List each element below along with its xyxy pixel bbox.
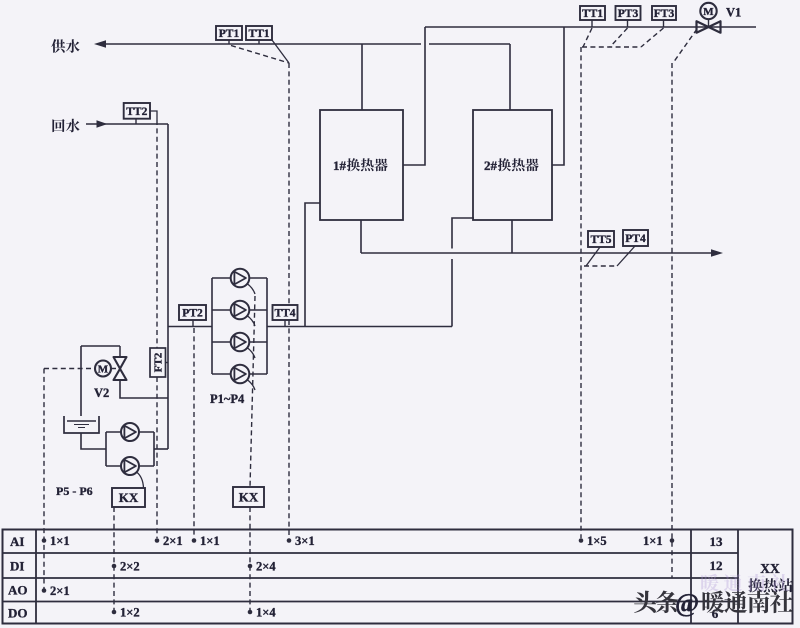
node DI KX-left 2x2 bbox=[112, 560, 140, 574]
signal line pumps to KX (dashed x=255-250) bbox=[250, 296, 255, 487]
wire exchanger2 top outlet bbox=[509, 44, 511, 110]
label V2 bbox=[94, 386, 109, 400]
valve V2 with motor actuator M bbox=[81, 346, 168, 398]
pump P2 bbox=[231, 301, 250, 320]
svg-text:V1: V1 bbox=[726, 6, 741, 20]
relay KX (P1-P4) bbox=[233, 487, 264, 507]
row label DO bbox=[8, 606, 28, 621]
svg-text:1×1: 1×1 bbox=[50, 534, 70, 548]
count DI 12 bbox=[710, 558, 723, 573]
expansion tank bbox=[64, 416, 99, 433]
svg-text:2#: 2# bbox=[484, 158, 498, 173]
svg-text:1×4: 1×4 bbox=[256, 606, 276, 620]
pump status hook P6 to KX bbox=[137, 472, 144, 488]
svg-text:12: 12 bbox=[710, 558, 723, 573]
wire primary supply header (through V1) bbox=[425, 26, 756, 28]
wire secondary inlet to exchanger1 bbox=[305, 203, 320, 327]
svg-text:TT1: TT1 bbox=[248, 28, 269, 40]
count AI 13 bbox=[710, 534, 724, 549]
wire exchanger1 top outlet bbox=[361, 44, 363, 110]
label V1 bbox=[726, 6, 741, 20]
svg-text:M: M bbox=[703, 6, 714, 18]
node AI V2 1x1 bbox=[42, 534, 70, 548]
wire pump discharge header bbox=[267, 326, 452, 328]
wire tank feed bbox=[80, 346, 82, 416]
svg-text:DO: DO bbox=[8, 606, 28, 621]
row label AI bbox=[10, 534, 24, 549]
signal line PT1/TT1 to trunk (x=289) bbox=[231, 40, 289, 538]
svg-text:FT2: FT2 bbox=[153, 352, 165, 372]
signal line KX left (dashed x=114) bbox=[113, 507, 115, 610]
svg-text:13: 13 bbox=[710, 534, 724, 549]
label 回水 bbox=[52, 119, 79, 133]
label 供水 bbox=[51, 39, 79, 53]
node DO KX-left 1x2 bbox=[112, 606, 140, 620]
instrument TT5 (primary return) bbox=[586, 231, 614, 266]
node AI trunk 1x5 bbox=[579, 534, 607, 548]
wire tank outlet bbox=[81, 433, 106, 449]
signal line TT5/PT4 to trunk bbox=[584, 265, 617, 267]
instrument TT1 (primary supply) bbox=[580, 6, 605, 27]
instrument TT1 (secondary supply) bbox=[246, 26, 272, 44]
node AI TT2/FT2 2x1 bbox=[155, 534, 183, 548]
node AO V2 2x1 bbox=[42, 584, 70, 598]
node AI PT2 1x1 bbox=[192, 534, 220, 548]
svg-text:1#: 1# bbox=[333, 158, 347, 173]
pump P4 bbox=[231, 365, 250, 384]
svg-text:1×2: 1×2 bbox=[120, 606, 140, 620]
label P5 - P6 bbox=[56, 484, 93, 498]
instrument TT4 (pump suction) bbox=[273, 305, 298, 327]
wire primary inlet to exchanger2 bbox=[552, 27, 564, 165]
svg-text:PT1: PT1 bbox=[219, 28, 240, 40]
pump manifold P5-P6 buses bbox=[106, 432, 154, 466]
svg-text:TT1: TT1 bbox=[582, 8, 603, 20]
svg-text:FT3: FT3 bbox=[654, 8, 675, 20]
valve V1 with motor actuator M bbox=[697, 3, 721, 33]
wire secondary return riser (回水) bbox=[86, 120, 168, 449]
svg-text:PT4: PT4 bbox=[625, 233, 646, 245]
pump manifold P1-P4 buses bbox=[212, 278, 267, 374]
svg-text:P5 - P6: P5 - P6 bbox=[56, 484, 93, 498]
node DO KX-right 1x4 bbox=[248, 606, 277, 620]
heat exchanger U2 (2#换热器) bbox=[473, 110, 552, 220]
svg-text:@: @ bbox=[675, 589, 699, 618]
heat exchanger U1 (1#换热器) bbox=[320, 110, 403, 220]
signal line V1 (dashed, x=672) bbox=[672, 29, 697, 578]
svg-text:2×1: 2×1 bbox=[163, 534, 183, 548]
instrument TT2 (return temp) bbox=[124, 103, 157, 124]
svg-text:V2: V2 bbox=[94, 386, 109, 400]
svg-text:1×1: 1×1 bbox=[643, 534, 663, 548]
wire secondary supply line (to 供水) bbox=[94, 40, 510, 48]
svg-text:TT2: TT2 bbox=[126, 106, 147, 118]
watermark light 暖通南社 bbox=[701, 574, 789, 592]
svg-text:DI: DI bbox=[10, 559, 24, 574]
pump status hooks P1-P4 bbox=[247, 284, 255, 391]
instrument PT3 bbox=[616, 6, 641, 27]
svg-text:M: M bbox=[98, 363, 109, 375]
instrument PT2 (pump suction) bbox=[179, 305, 206, 327]
wire pump suction header bbox=[168, 326, 212, 328]
svg-text:KX: KX bbox=[119, 490, 139, 505]
relay KX (P5-P6) bbox=[112, 488, 145, 507]
wire P5-P6 outlet bbox=[154, 448, 168, 450]
node AI PT1/TT1/TT4 3x1 bbox=[287, 534, 315, 548]
pump P1 bbox=[231, 269, 250, 288]
wire primary inlet to exchanger1 bbox=[403, 27, 425, 165]
signal line TT2/FT2 (dashed x=157) bbox=[156, 120, 158, 538]
row label DI bbox=[10, 559, 24, 574]
node AI V1 1x1 bbox=[643, 534, 674, 548]
svg-text:TT4: TT4 bbox=[274, 308, 295, 320]
pump P5 bbox=[121, 423, 139, 441]
instrument FT2 (flow, on riser) bbox=[150, 348, 168, 377]
svg-text:2×4: 2×4 bbox=[256, 560, 276, 574]
svg-text:PT3: PT3 bbox=[618, 8, 639, 20]
svg-text:P1~P4: P1~P4 bbox=[210, 392, 245, 406]
instrument FT3 bbox=[652, 6, 676, 27]
count DO 6 bbox=[712, 606, 719, 621]
row label AO bbox=[8, 583, 28, 598]
signal line trunk TT1/PT3/FT3 (dashed, x=581) bbox=[581, 28, 664, 538]
svg-text:1×5: 1×5 bbox=[587, 534, 607, 548]
svg-text:2×2: 2×2 bbox=[120, 560, 140, 574]
signal line V2 (dashed x=44) bbox=[44, 369, 95, 590]
svg-text:PT2: PT2 bbox=[182, 308, 203, 320]
pump P3 bbox=[231, 333, 250, 352]
svg-text:3×1: 3×1 bbox=[295, 534, 315, 548]
title cell XX 换热站 bbox=[748, 561, 792, 592]
instrument PT1 (secondary supply) bbox=[216, 26, 242, 44]
signal line KX right (dashed x=250) bbox=[249, 507, 251, 610]
wire secondary inlet to exchanger2 bbox=[452, 218, 474, 327]
instrument PT4 (primary return) bbox=[617, 230, 648, 266]
svg-text:TT5: TT5 bbox=[590, 234, 611, 246]
svg-text:1×1: 1×1 bbox=[200, 534, 220, 548]
signal line PT2 (dashed x=194) bbox=[193, 328, 195, 538]
svg-text:KX: KX bbox=[239, 490, 259, 505]
label P1~P4 bbox=[210, 392, 245, 406]
IO table grid bbox=[3, 530, 793, 624]
svg-text:AO: AO bbox=[8, 583, 28, 598]
node DI KX-right 2x4 bbox=[248, 560, 277, 574]
wire primary return line (arrow right) bbox=[361, 220, 723, 257]
svg-text:XX: XX bbox=[760, 561, 780, 576]
pump P6 bbox=[121, 457, 139, 475]
watermark 头条@暖通南社 bbox=[634, 589, 793, 618]
svg-text:2×1: 2×1 bbox=[50, 584, 70, 598]
svg-text:AI: AI bbox=[10, 534, 24, 549]
